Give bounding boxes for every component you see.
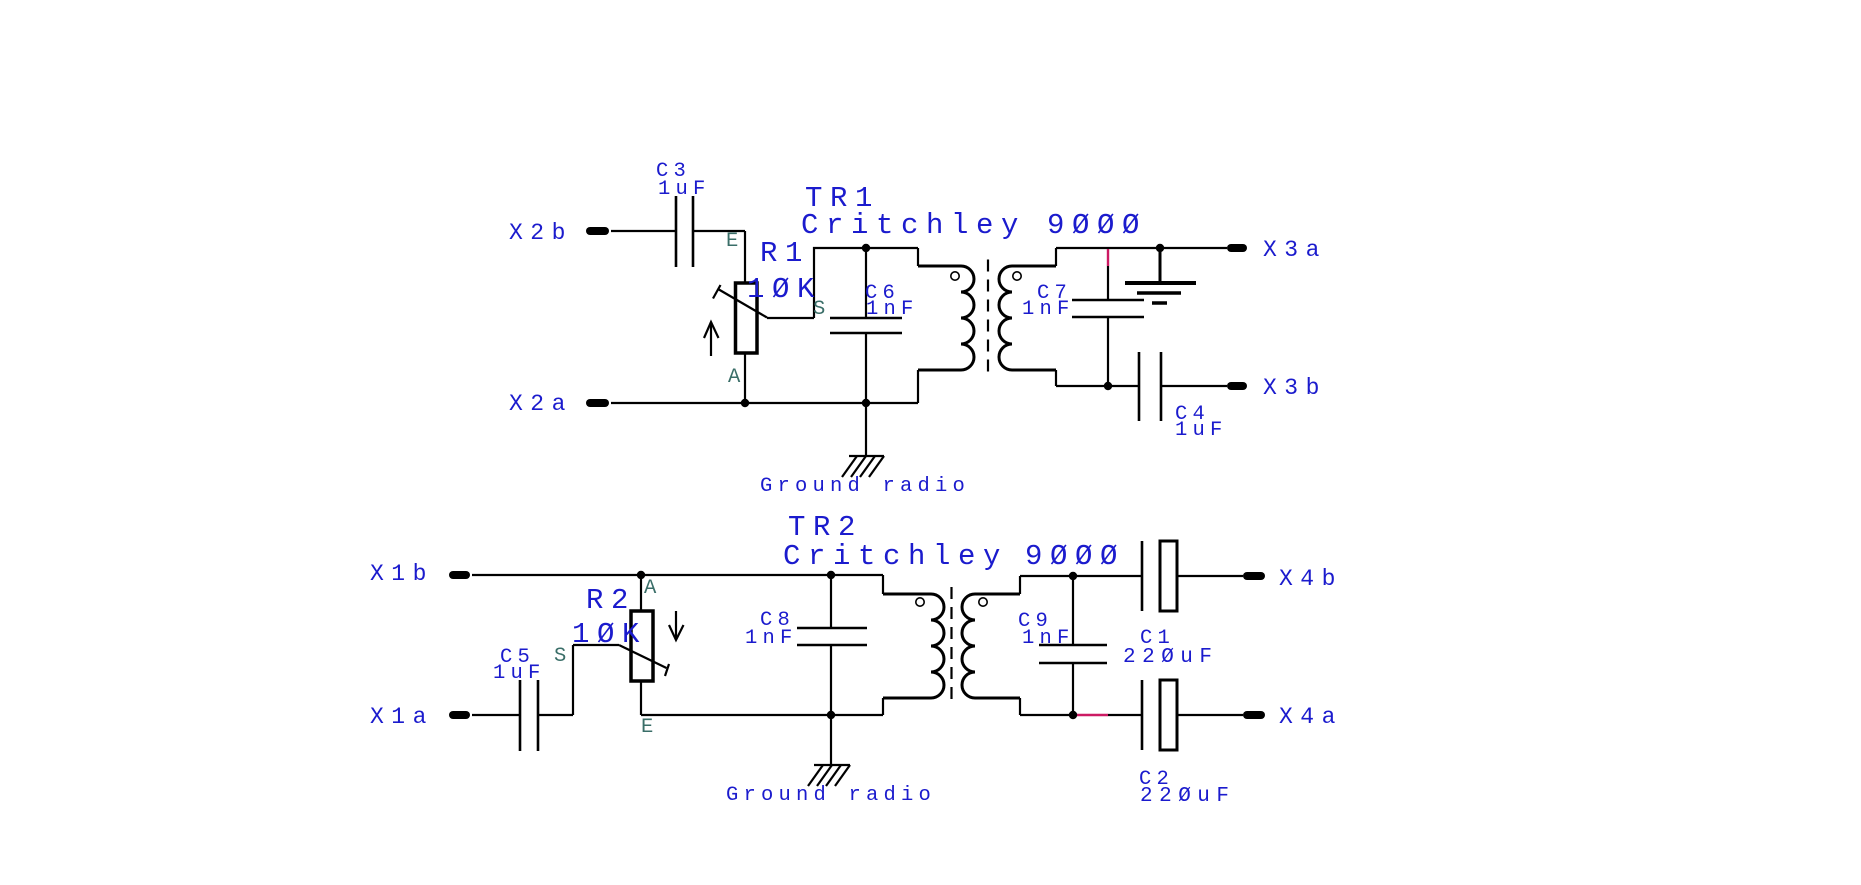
svg-text:1nF: 1nF [866,298,919,321]
svg-text:X1a: X1a [370,704,434,730]
svg-text:S: S [813,298,831,321]
svg-text:1uF: 1uF [1175,419,1228,442]
svg-text:X1b: X1b [370,561,434,587]
svg-text:Ground radio: Ground radio [760,475,970,498]
svg-text:A: A [728,366,746,389]
svg-text:R2: R2 [586,584,636,617]
svg-text:22ØuF: 22ØuF [1140,785,1236,808]
svg-text:E: E [726,230,744,253]
svg-text:X4a: X4a [1279,704,1343,730]
svg-text:X2a: X2a [509,391,573,417]
svg-text:1ØK: 1ØK [572,618,647,651]
svg-text:9ØØØ: 9ØØØ [1025,540,1125,573]
svg-text:1nF: 1nF [1022,627,1075,650]
svg-text:R1: R1 [760,237,810,270]
svg-text:Ground radio: Ground radio [726,784,936,807]
svg-text:9ØØØ: 9ØØØ [1047,209,1147,242]
svg-text:E: E [641,716,659,739]
svg-text:22ØuF: 22ØuF [1123,646,1219,669]
svg-text:X2b: X2b [509,220,573,246]
svg-text:X3b: X3b [1263,375,1327,401]
svg-text:1nF: 1nF [1022,298,1075,321]
svg-text:1uF: 1uF [493,662,546,685]
svg-text:X3a: X3a [1263,237,1327,263]
svg-text:Critchley: Critchley [801,209,1026,242]
svg-text:1uF: 1uF [658,178,711,201]
svg-text:1ØK: 1ØK [747,273,822,306]
svg-text:1nF: 1nF [745,627,798,650]
svg-text:S: S [554,645,572,668]
svg-text:X4b: X4b [1279,566,1343,592]
svg-text:Critchley: Critchley [783,540,1008,573]
svg-text:A: A [644,577,662,600]
